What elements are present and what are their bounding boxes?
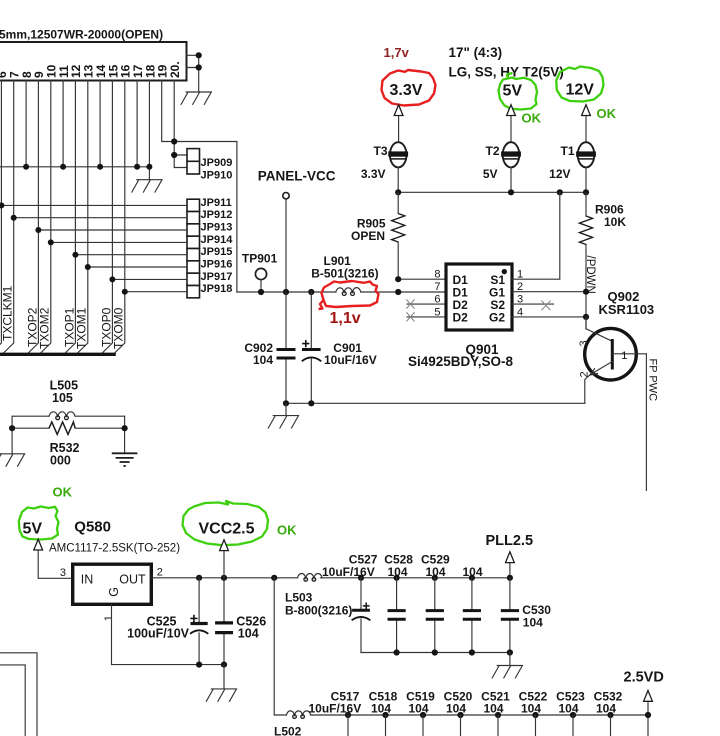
svg-text:TXCLKM1: TXCLKM1 [1,285,15,341]
resistor R906 10K [580,192,627,329]
svg-text:VCC2.5: VCC2.5 [199,521,255,538]
jumper JP911 [187,199,200,211]
power arrow 5V [510,116,512,143]
pin labels 8 7 6 5 [434,269,440,319]
svg-text:10K: 10K [604,215,626,229]
junction dots on main wire [258,289,264,295]
wire Q901 pin1 S1 up to rail [512,192,560,279]
svg-text:TP901: TP901 [242,252,278,266]
svg-text:C528: C528 [384,552,413,566]
svg-text:104: 104 [388,565,408,579]
svg-text:104: 104 [446,701,466,715]
junction dots node rail [196,575,202,581]
jumper JP916 [187,261,200,273]
wire branch down to 2.5VD rail [274,578,286,715]
svg-text:5V: 5V [23,521,43,538]
svg-text:10uF/16V: 10uF/16V [322,565,375,579]
svg-text:104: 104 [408,701,428,715]
svg-text:5V: 5V [483,167,498,181]
wire Q901 pin2 G1 to /PDWN [512,291,586,293]
svg-text:OPEN: OPEN [351,229,385,243]
wire FP_PWC [645,354,647,491]
svg-text:PLL2.5: PLL2.5 [486,533,534,549]
svg-text:104: 104 [521,701,541,715]
wire pin18 column to ground [148,81,150,180]
wire pin15 column TXOP0 [102,81,113,354]
svg-text:104: 104 [523,615,543,629]
wire to ground [223,665,225,689]
svg-text:C527: C527 [349,552,378,566]
inductor L502 [274,711,311,736]
annotation green circle around 12V [556,67,603,102]
wire TP901 down [260,280,262,292]
junction dots pin20 [171,138,177,144]
wire JP916 to pin13 [88,266,187,268]
svg-text:JP910: JP910 [201,169,233,181]
wire pin14 column [99,81,101,167]
transistor Q902 KSR1103 [578,317,647,403]
svg-text:KSR1103: KSR1103 [599,302,655,317]
inductor L901 B-501(3216) [311,254,378,296]
svg-text:T1: T1 [561,144,575,158]
wire pin11 column [62,81,64,167]
wire JP917 to pin15 [112,278,187,280]
capacitor C526 104 [215,578,266,665]
capacitor C529 104 [421,552,450,652]
svg-text:2: 2 [578,371,590,377]
annotation green circle around 5V [19,507,59,540]
svg-text:6: 6 [434,294,440,306]
junction dots bottom rail [196,662,202,668]
annotation red circle around L901 [319,281,379,309]
svg-text:T3: T3 [374,144,388,158]
svg-text:TXOM2: TXOM2 [38,307,52,349]
svg-text:104: 104 [253,353,273,367]
wire JP912 to pin7 [14,217,187,219]
svg-text:OK: OK [522,111,542,126]
inductor L505 105 [12,379,125,420]
svg-text:TXOM0: TXOM0 [112,307,126,349]
svg-text:FP PWC: FP PWC [646,359,658,402]
wire ground rail y=403 [286,402,585,404]
wire pin16 column TXOM0 [114,81,125,354]
svg-text:1,1v: 1,1v [330,310,361,327]
svg-text:104: 104 [483,701,503,715]
capacitor C527 10uF/16V (polarized) [322,552,378,652]
jumper JP917 [187,273,200,285]
wire JP918 to pin16 [125,291,187,293]
capacitor 104 (4th) [463,565,483,652]
svg-text:OK: OK [597,106,617,121]
svg-text:G2: G2 [489,311,505,325]
svg-text:104: 104 [371,701,391,715]
svg-text:3: 3 [578,340,590,346]
svg-text:Si4925BDY,SO-8: Si4925BDY,SO-8 [408,354,514,369]
svg-text:1: 1 [103,615,115,621]
wire L505 left node [11,416,13,454]
power arrow PLL2.5 [509,563,511,578]
wire pin8 column [25,81,27,167]
svg-text:C529: C529 [421,552,450,566]
svg-text:10uF/16V: 10uF/16V [324,353,377,367]
border corner lines bottom-left [0,653,37,736]
wire pll bottom rail [361,652,510,654]
power arrow 2.5VD [647,701,649,736]
resistor R905 OPEN [351,192,405,279]
svg-text:5V: 5V [503,82,523,99]
svg-text:3: 3 [60,567,66,579]
svg-text:B-501(3216): B-501(3216) [311,266,378,280]
svg-text:OK: OK [53,485,73,500]
capacitor C530 104 [501,578,552,653]
svg-text:JP911: JP911 [201,197,232,209]
wire Q901 pin6 (nc) [407,303,446,305]
ground (slanted) connector stubs [181,92,211,104]
annotation green ellipse around VCC2.5 [183,501,269,545]
ground (slanted) under C526 [206,689,236,701]
signal bus (thick) [0,353,116,356]
svg-text:AMC1117-2.5SK(TO-252): AMC1117-2.5SK(TO-252) [49,543,180,555]
ground (slanted) under pin18 [132,180,162,192]
pin labels 1 2 3 4 [517,269,523,319]
svg-text:JP918: JP918 [201,283,233,295]
svg-text:/PDWN: /PDWN [584,256,596,294]
svg-text:TXOM1: TXOM1 [75,307,89,349]
svg-text:5: 5 [434,306,440,318]
wire VCC2.5 node rail [151,577,510,579]
svg-text:L502: L502 [274,725,302,736]
wire Q901 pin8 to R905 [398,278,446,280]
wire JP915 to pin12 [75,254,187,256]
no-connect X pin5 [406,312,414,321]
wire ground bus y=167 [0,166,149,168]
fuse T3 [361,142,408,192]
svg-text:C517: C517 [331,690,360,704]
junction dots pll rail [358,575,364,581]
junction dots ground bus [23,164,29,170]
terminal PANEL-VCC [283,193,289,199]
wire L505 right node [124,416,126,453]
svg-text:17" (4:3): 17" (4:3) [449,45,503,60]
power arrow VCC2.5 [223,551,225,578]
ground (earth) right of R532 [112,453,138,466]
svg-text:3.3V: 3.3V [361,167,386,181]
svg-text:B-800(3216): B-800(3216) [285,604,352,618]
jumper JP912 [187,212,200,224]
wire pin7 column TXCLKM1 [3,81,14,354]
svg-text:JP913: JP913 [201,222,233,234]
resistor R532 000 [12,422,125,468]
wire Q580 pin1 down [112,604,225,664]
svg-text:12V: 12V [549,167,570,181]
svg-text:1,7v: 1,7v [384,45,410,60]
wire pin12 column TXOP1 [65,81,76,354]
svg-text:OK: OK [277,523,297,538]
svg-text:7: 7 [434,281,440,293]
jumper JP909 [187,149,200,162]
svg-text:105: 105 [52,391,73,405]
wire pin20 column to JP909/JP910 [174,81,187,168]
jumper JP910 [187,161,200,174]
annotation red circle around 3.3V [382,70,436,106]
wire JP911 to pin6 [1,204,187,206]
jumper JP918 [187,286,200,298]
svg-text:L503: L503 [285,590,313,604]
node stub junction dots [196,52,202,58]
svg-text:3.3V: 3.3V [390,82,423,99]
svg-text:2.5VD: 2.5VD [624,669,664,685]
svg-text:OUT: OUT [119,573,146,587]
svg-text:8: 8 [434,269,440,281]
ground (slanted) under C902 [268,403,298,428]
wire Q901 pin5 (nc) [407,316,446,318]
ground (slanted) pll [492,666,522,678]
pin numbers 6-20 [0,61,182,78]
svg-text:JP909: JP909 [201,157,233,169]
wire pin17 column [136,81,138,167]
wire pin13 column TXOM1 [77,81,88,354]
svg-text:000: 000 [50,454,71,468]
capacitor C901 10uF/16V (polarized) [302,292,377,403]
svg-text:100uF/10V: 100uF/10V [127,627,190,641]
wire top rail y=192 [398,191,586,193]
svg-text:20.: 20. [168,61,182,78]
jumper JP914 [187,236,200,248]
mosfet Q901 Si4925BDY,SO-8 [446,264,512,330]
svg-text:G: G [107,587,121,597]
svg-text:5mm,12507WR-20000(OPEN): 5mm,12507WR-20000(OPEN) [0,28,163,42]
wire JP914 to pin10 [51,241,187,243]
fuse T2 [483,142,521,192]
ground (slanted) left of L505 [0,454,25,466]
svg-text:1: 1 [621,350,627,362]
wire pin19 stub right of connector [187,55,199,92]
connector J (12507WR-20000) [0,28,187,81]
svg-text:JP916: JP916 [201,259,233,271]
capacitor C525 100uF/10V (polarized) [127,578,208,665]
wire JP913 to pin9 [38,229,187,231]
capacitor C902 104 [244,292,295,403]
regulator U Q580 box [73,564,152,604]
wire to ground [509,653,511,666]
wire PANEL-VCC net main [237,291,446,293]
svg-text:104: 104 [596,701,616,715]
svg-text:JP914: JP914 [201,234,234,246]
wire 2.5VD rail [311,714,648,716]
wire pin9 column TXOP2 [28,81,39,354]
power arrow 12V [585,116,587,143]
svg-text:104: 104 [558,701,578,715]
annotation green circle around 5V [499,73,538,110]
fuse T1 [549,142,596,192]
capacitor C528 104 [384,552,413,652]
svg-text:104: 104 [426,565,446,579]
wire Q901 pin4 G2 to /PDWN [512,316,586,318]
svg-text:PANEL-VCC: PANEL-VCC [258,168,336,183]
svg-text:104: 104 [463,565,483,579]
svg-text:JP915: JP915 [201,246,233,258]
wire PANEL-VCC down [285,199,287,292]
wire Q901 pin3 S2 (nc) [512,303,554,305]
svg-text:Q580: Q580 [74,519,111,536]
no-connect X pin3 [542,301,551,311]
svg-text:JP912: JP912 [201,209,233,221]
inductor L503 B-800(3216) [285,574,352,618]
svg-text:2: 2 [157,567,163,579]
svg-text:IN: IN [81,572,94,586]
power arrow 5V [38,550,72,578]
svg-text:12V: 12V [566,82,595,99]
svg-text:LG, SS, HY T2(5V): LG, SS, HY T2(5V) [449,65,564,80]
jumper JP913 [187,224,200,236]
power arrow 3.3V [398,116,400,143]
jumper JP915 [187,249,200,261]
wire pin6 column [0,81,1,354]
svg-text:104: 104 [238,627,259,641]
svg-text:T2: T2 [486,144,500,158]
wire pin19 to panel-vcc vertical [162,81,237,293]
wire pin10 column TXOM2 [40,81,51,354]
svg-text:D2: D2 [453,311,469,325]
svg-text:JP917: JP917 [201,271,233,283]
no-connect X pin6 [406,299,414,308]
